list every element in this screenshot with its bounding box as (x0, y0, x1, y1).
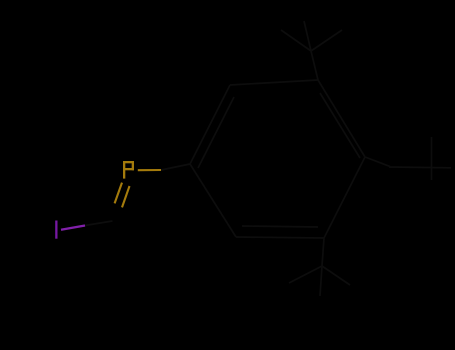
wire: ring edge orthoT-metaT (230, 80, 318, 85)
wire: P=C line 2 (122, 186, 130, 207)
atom label I (plain bar glyph) (55, 221, 57, 239)
tert-butyl right (on para) (365, 137, 451, 180)
benzene ring C1-C6 (190, 80, 365, 238)
wire: top tBu methyl b (311, 30, 342, 51)
double bond P=C (olive) (115, 183, 130, 208)
tert-butyl top (on metaT) (281, 21, 342, 80)
wire: dark half of C-I bond (carbon side) (85, 221, 113, 226)
wire: ring edge orthoB-ipso (190, 164, 236, 237)
wire: ring edge metaB-orthoB (236, 237, 324, 238)
wire: inner aromatic line 3 (242, 226, 318, 227)
wire: P=C line 1 (115, 183, 122, 204)
wire: top tBu methyl a (281, 30, 311, 51)
bond P-aryl (phosphorus half, olive) (138, 169, 161, 171)
wire: top tBu stem (311, 51, 318, 80)
wire: right tBu methyl a (horizontal) (389, 166, 451, 169)
wire: ring edge metaT-para (318, 80, 365, 157)
wire: inner aromatic line 2 (320, 93, 360, 158)
wire: right tBu stem (365, 157, 390, 167)
wire: bottom tBu methyl c (320, 266, 322, 296)
wire: bottom tBu stem (322, 238, 324, 266)
wire: dark half of P-aryl bond (carbon side) (161, 164, 190, 170)
atom label P (blocky bitmap-style glyph) (123, 161, 134, 179)
wire: inner aromatic line 1 (198, 97, 234, 168)
wire: bottom tBu methyl b (322, 266, 350, 285)
wire: top tBu methyl c (304, 21, 311, 51)
wire: ring edge ipso-orthoT (190, 85, 230, 164)
bond C-I (iodine half, purple) (61, 226, 85, 230)
tert-butyl bottom (on metaB) (289, 238, 350, 296)
wire: ring edge para-metaB (324, 157, 365, 238)
wire: right tBu methyl b (vertical) (431, 137, 433, 180)
wire: bottom tBu methyl a (289, 266, 322, 283)
